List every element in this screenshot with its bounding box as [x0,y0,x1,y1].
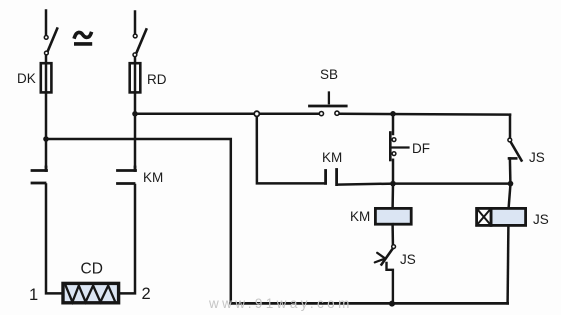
wire DK branch down [45,92,48,167]
junction bottom rail / JS delay branch [389,301,395,307]
wire KM pole2 to CD terminal 2 [119,185,135,293]
wire row A left (RD junction to SB) [135,113,319,116]
svg-text:DF: DF [412,141,430,156]
svg-text:KM: KM [143,170,163,185]
bottom rail [231,302,508,305]
junction RD line / row A [132,111,138,117]
svg-text:SB: SB [320,67,338,82]
AC supply symbol [75,32,91,43]
svg-text:2: 2 [142,285,151,303]
svg-text:JS: JS [400,252,416,267]
svg-text:DK: DK [17,71,36,86]
svg-text:www.91way.com: www.91way.com [208,296,353,311]
heating element CD [63,283,119,302]
wire branch from terminal down to contact row [257,117,325,183]
coil KM [375,184,411,244]
wire DK top lead [45,11,48,35]
pushbutton DF (normally closed) [390,114,408,184]
svg-text:JS: JS [533,212,549,227]
wire KM pole1 to CD terminal 1 [46,185,63,294]
wire B (left junction to bottom rail corner) [46,139,231,303]
junction DF bottom [390,181,396,187]
switch DK-blade (knife switch pole 1) [44,29,57,55]
pushbutton SB [310,93,347,116]
wire RD top lead [134,12,137,34]
switch RD-blade (knife switch pole 2) [133,30,146,57]
wire row C right (DF to JS line) [393,182,511,185]
switch JS (time-relay contact, right) [508,115,522,184]
svg-text:KM: KM [350,209,370,224]
auxiliary contact KM (self-hold) [326,170,337,185]
contactor main contact KM pole 2 [118,167,136,184]
junction right line / row C [508,181,514,187]
wire RD branch down [134,92,137,167]
fuse DK [41,56,52,93]
node branch terminal (open circle) [254,111,259,116]
svg-text:JS: JS [529,150,545,165]
coil JS (time relay with delay box) [477,184,526,304]
wire aux contact to DF line [338,184,393,185]
svg-text:CD: CD [81,261,103,278]
fuse RD [130,57,141,92]
wire row A right (SB to right corner) [340,113,510,116]
svg-text:RD: RD [147,72,167,87]
svg-text:1: 1 [29,286,38,304]
contactor main contact KM pole 1 [32,167,47,183]
svg-text:KM: KM [322,150,342,165]
junction left line / wire B [43,136,49,142]
junction DF top [390,111,396,117]
time-delay contact JS (below KM coil) [375,245,396,304]
